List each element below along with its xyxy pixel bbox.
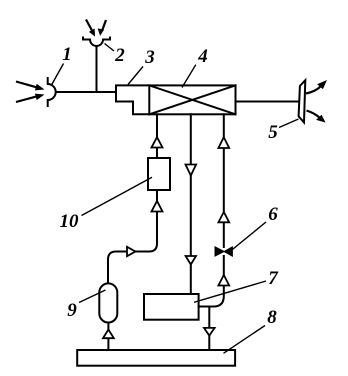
svg-text:7: 7 — [268, 268, 279, 289]
svg-text:2: 2 — [114, 45, 125, 66]
svg-text:10: 10 — [60, 211, 80, 232]
svg-text:4: 4 — [197, 46, 208, 67]
svg-text:3: 3 — [144, 47, 155, 68]
svg-text:9: 9 — [67, 300, 77, 321]
svg-text:8: 8 — [267, 307, 277, 328]
svg-text:5: 5 — [268, 122, 278, 143]
svg-text:1: 1 — [62, 44, 72, 65]
svg-text:6: 6 — [268, 204, 278, 225]
